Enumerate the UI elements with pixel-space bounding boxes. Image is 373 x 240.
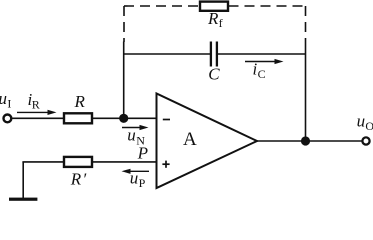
capacitor C plates bbox=[210, 42, 212, 67]
wire: resistor R' to op-amp non-inverting input bbox=[92, 161, 157, 163]
wire: resistor R to op-amp inverting input bbox=[92, 117, 157, 119]
wire: right vertical from feedback branches down to output node bbox=[305, 40, 307, 141]
svg-text:R′: R′ bbox=[70, 170, 87, 189]
wire: capacitor branch left segment bbox=[123, 53, 210, 55]
svg-text:A: A bbox=[183, 129, 197, 150]
wire: dashed feedback-box left vertical bbox=[123, 6, 125, 42]
node N junction dot bbox=[119, 114, 128, 123]
svg-text:I: I bbox=[7, 96, 11, 110]
resistor Rf bbox=[200, 2, 228, 11]
svg-text:u: u bbox=[127, 126, 136, 145]
svg-text:C: C bbox=[208, 65, 220, 84]
wire: node N up to capacitor branch (solid) bbox=[123, 42, 125, 119]
svg-text:R: R bbox=[207, 9, 219, 28]
svg-text:P: P bbox=[137, 143, 148, 162]
wire: dashed feedback-box top, right of Rf bbox=[229, 5, 306, 7]
resistor R' bbox=[64, 157, 92, 167]
svg-text:u: u bbox=[0, 89, 7, 108]
wire: input terminal to resistor R bbox=[11, 117, 64, 119]
current arrow iR bbox=[17, 111, 49, 113]
op-amp non-inverting input marker + bbox=[162, 163, 169, 165]
svg-text:f: f bbox=[219, 16, 223, 30]
op-amp inverting input marker - bbox=[163, 119, 170, 121]
wire: ground to resistor R' bbox=[22, 161, 64, 163]
resistor R bbox=[64, 113, 92, 123]
output node junction dot bbox=[301, 136, 310, 145]
voltage arrow uP (pointing left) bbox=[129, 170, 149, 172]
op-amp U1 triangle bbox=[157, 94, 258, 189]
svg-text:R: R bbox=[32, 97, 40, 111]
svg-text:R: R bbox=[74, 92, 86, 111]
output terminal (open circle) bbox=[362, 137, 369, 144]
svg-text:u: u bbox=[130, 168, 139, 187]
svg-text:u: u bbox=[357, 112, 366, 131]
wire: capacitor branch right segment bbox=[218, 53, 306, 55]
svg-text:P: P bbox=[139, 176, 146, 190]
wire: dashed feedback-box right vertical bbox=[305, 6, 307, 40]
voltage arrow uN bbox=[122, 127, 141, 129]
wire: dashed feedback-box top, left of Rf bbox=[124, 5, 200, 7]
current arrow iC bbox=[245, 61, 276, 63]
input terminal (open circle) bbox=[4, 115, 12, 123]
svg-text:C: C bbox=[258, 67, 266, 81]
ground bbox=[9, 198, 37, 201]
wire: ground riser bbox=[22, 162, 24, 198]
wire: op-amp output to output terminal bbox=[257, 140, 363, 142]
svg-text:O: O bbox=[365, 119, 373, 133]
